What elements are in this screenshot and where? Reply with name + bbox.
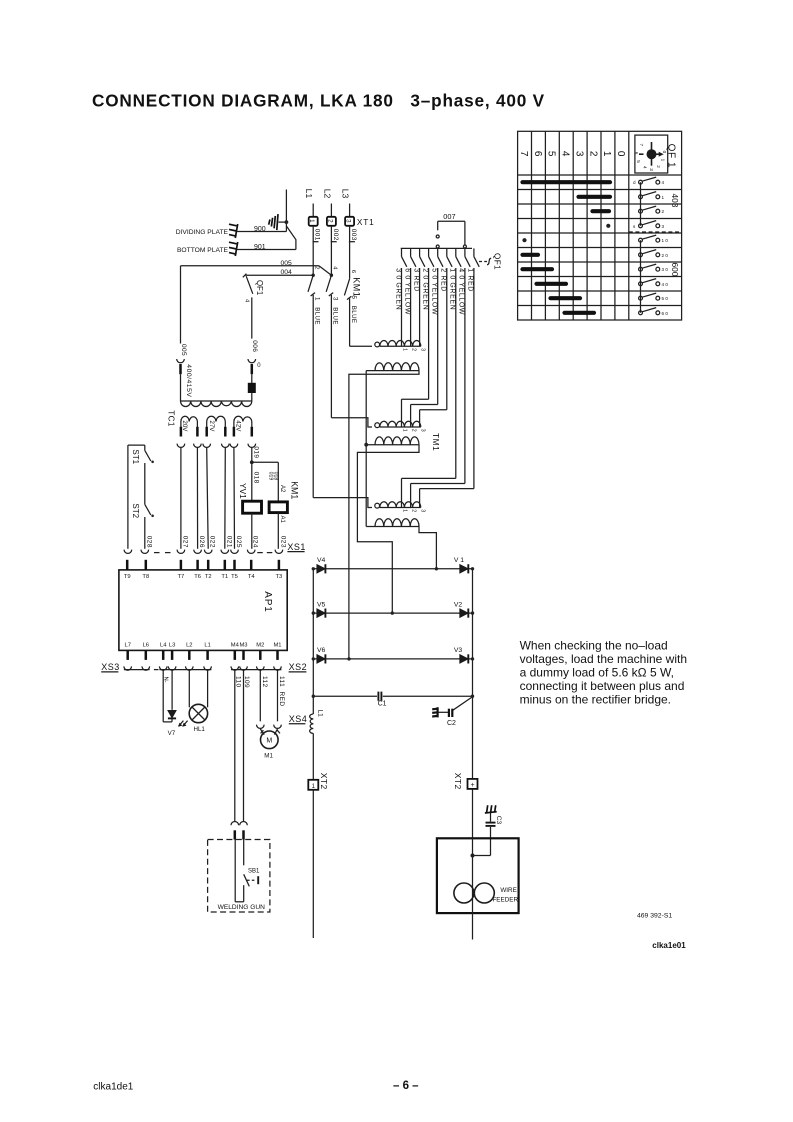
svg-text:L1: L1 — [204, 642, 210, 648]
svg-text:C3: C3 — [495, 816, 502, 825]
svg-text:When checking the no–load: When checking the no–load — [520, 638, 668, 652]
svg-text:XS3: XS3 — [101, 662, 120, 672]
svg-text:1 BLUE: 1 BLUE — [313, 297, 320, 325]
svg-text:006: 006 — [251, 340, 258, 352]
svg-text:3: 3 — [419, 509, 425, 512]
svg-text:42V: 42V — [235, 420, 242, 432]
svg-text:T8: T8 — [142, 574, 149, 580]
svg-text:1: 1 — [401, 429, 407, 432]
svg-text:L3: L3 — [169, 642, 175, 648]
svg-text:T9: T9 — [124, 574, 131, 580]
svg-text:A1: A1 — [279, 516, 285, 524]
svg-text:a dummy load of 5.6 kΩ 5 W,: a dummy load of 5.6 kΩ 5 W, — [520, 665, 674, 679]
svg-text:469 392-S1: 469 392-S1 — [637, 912, 672, 919]
svg-text:003: 003 — [350, 229, 357, 241]
svg-text:1: 1 — [662, 195, 665, 200]
svg-text:M1: M1 — [264, 752, 273, 759]
svg-text:3 0 GREEN: 3 0 GREEN — [394, 268, 401, 310]
svg-text:T6: T6 — [194, 574, 201, 580]
svg-text:V7: V7 — [168, 730, 176, 737]
svg-text:TC1: TC1 — [167, 410, 176, 427]
svg-text:N-: N- — [163, 677, 169, 683]
svg-text:M1: M1 — [273, 642, 281, 648]
svg-text:clka1de1: clka1de1 — [93, 1082, 133, 1093]
svg-text:2: 2 — [326, 219, 333, 223]
svg-text:M2: M2 — [256, 642, 264, 648]
svg-text:SB1: SB1 — [248, 869, 260, 875]
svg-text:clka1e01: clka1e01 — [652, 941, 686, 950]
svg-text:T2: T2 — [205, 574, 212, 580]
svg-text:YV1: YV1 — [238, 483, 248, 499]
svg-text:3 0: 3 0 — [662, 267, 669, 272]
svg-text:QF 1: QF 1 — [666, 144, 677, 169]
svg-text:C1: C1 — [378, 701, 387, 708]
svg-text:XS1: XS1 — [287, 542, 306, 552]
svg-text:L6: L6 — [143, 642, 149, 648]
svg-text:CONNECTION DIAGRAM, LKA 180: CONNECTION DIAGRAM, LKA 180 3–phase, 400… — [92, 91, 545, 111]
svg-text:L7: L7 — [124, 642, 130, 648]
svg-text:018: 018 — [272, 472, 278, 481]
svg-text:6: 6 — [350, 270, 356, 273]
svg-text:3 BLUE: 3 BLUE — [332, 297, 339, 325]
svg-text:TM1: TM1 — [431, 433, 441, 451]
svg-text:V5: V5 — [317, 601, 326, 608]
svg-text:019: 019 — [252, 446, 259, 458]
svg-text:DIVIDING PLATE: DIVIDING PLATE — [176, 229, 229, 236]
svg-text:C2: C2 — [447, 720, 456, 727]
svg-text:001: 001 — [314, 229, 321, 241]
svg-text:27V: 27V — [208, 420, 215, 432]
svg-text:T4: T4 — [248, 574, 256, 580]
svg-text:2 0 GREEN: 2 0 GREEN — [421, 268, 428, 310]
svg-text:HL1: HL1 — [194, 726, 206, 733]
svg-text:V6: V6 — [317, 647, 326, 654]
svg-text:3: 3 — [419, 429, 425, 432]
svg-text:4: 4 — [560, 151, 571, 157]
svg-text:V4: V4 — [317, 557, 326, 564]
svg-text:3: 3 — [662, 224, 665, 229]
svg-text:minus on the rectifier bridge.: minus on the rectifier bridge. — [520, 693, 671, 707]
svg-text:403: 403 — [670, 194, 680, 208]
svg-text:4 0 YELLOW: 4 0 YELLOW — [458, 268, 465, 315]
svg-text:2: 2 — [662, 209, 665, 214]
svg-text:XT2: XT2 — [319, 773, 329, 790]
svg-text:022: 022 — [209, 536, 216, 548]
svg-text:XS4: XS4 — [289, 714, 308, 724]
svg-text:2 RED: 2 RED — [440, 268, 447, 292]
svg-text:2: 2 — [313, 266, 319, 269]
svg-text:021: 021 — [225, 536, 232, 548]
svg-text:023: 023 — [279, 536, 286, 548]
svg-text:110: 110 — [234, 676, 241, 688]
svg-text:0: 0 — [615, 151, 626, 157]
svg-text:WELDING GUN: WELDING GUN — [218, 904, 265, 911]
svg-text:004: 004 — [281, 269, 293, 276]
svg-text:025: 025 — [235, 536, 242, 548]
svg-text:3: 3 — [419, 348, 425, 351]
svg-text:600: 600 — [670, 263, 680, 277]
svg-text:005: 005 — [281, 260, 293, 267]
svg-text:L2: L2 — [322, 189, 332, 199]
svg-text:+: + — [470, 782, 474, 789]
svg-text:d: d — [633, 180, 636, 185]
svg-text:L4: L4 — [160, 642, 167, 648]
svg-text:018: 018 — [252, 472, 259, 484]
svg-text:1 0: 1 0 — [662, 238, 669, 243]
svg-text:2: 2 — [587, 151, 598, 157]
svg-text:6: 6 — [532, 151, 543, 157]
svg-text:2: 2 — [656, 165, 661, 168]
svg-text:L1: L1 — [316, 710, 323, 718]
svg-text:028: 028 — [145, 536, 152, 548]
svg-text:– 6 –: – 6 – — [393, 1080, 419, 1092]
svg-text:109: 109 — [243, 676, 250, 688]
svg-text:024: 024 — [252, 536, 259, 548]
svg-text:XS2: XS2 — [289, 662, 308, 672]
svg-text:XT2: XT2 — [453, 773, 463, 790]
svg-text:1: 1 — [661, 159, 666, 162]
svg-text:M4: M4 — [231, 642, 240, 648]
svg-text:AP1: AP1 — [262, 591, 273, 612]
svg-text:2: 2 — [410, 429, 416, 432]
svg-text:2: 2 — [410, 348, 416, 351]
svg-text:T1: T1 — [221, 574, 228, 580]
svg-text:026: 026 — [198, 536, 205, 548]
svg-text:5 0 YELLOW: 5 0 YELLOW — [431, 268, 438, 315]
svg-text:T5: T5 — [231, 574, 238, 580]
svg-text:M: M — [266, 738, 272, 745]
svg-text:6 0 YELLOW: 6 0 YELLOW — [403, 268, 410, 315]
svg-text:KM1: KM1 — [289, 481, 299, 499]
svg-text:3: 3 — [649, 168, 654, 171]
svg-text:7: 7 — [639, 144, 644, 147]
svg-text:V2: V2 — [454, 601, 463, 608]
svg-text:4: 4 — [662, 180, 665, 185]
svg-text:ST1: ST1 — [131, 449, 140, 464]
svg-text:005: 005 — [180, 344, 187, 356]
svg-text:112: 112 — [261, 676, 268, 688]
svg-text:1: 1 — [601, 151, 612, 157]
svg-text:QF1: QF1 — [493, 253, 502, 270]
svg-text:4 0: 4 0 — [662, 282, 669, 287]
svg-text:5: 5 — [546, 151, 557, 157]
svg-text:M3: M3 — [239, 642, 247, 648]
svg-text:V3: V3 — [454, 647, 463, 654]
svg-text:3: 3 — [345, 219, 352, 223]
svg-text:voltages, load the machine wit: voltages, load the machine with — [520, 652, 687, 666]
svg-text:T7: T7 — [178, 574, 185, 580]
svg-text:111 RED: 111 RED — [278, 676, 285, 706]
svg-text:L1: L1 — [304, 189, 314, 199]
svg-text:2: 2 — [410, 509, 416, 512]
svg-text:2 0: 2 0 — [662, 253, 669, 258]
svg-text:1 0 GREEN: 1 0 GREEN — [449, 268, 456, 310]
svg-text:ST2: ST2 — [131, 503, 140, 518]
svg-text:connecting it between plus and: connecting it between plus and — [520, 679, 685, 693]
svg-text:6: 6 — [634, 152, 639, 155]
svg-text:5: 5 — [636, 160, 641, 163]
svg-text:XT1: XT1 — [357, 217, 375, 227]
svg-text:002: 002 — [332, 229, 339, 241]
svg-text:FEEDER: FEEDER — [492, 897, 518, 904]
svg-text:L2: L2 — [186, 642, 192, 648]
svg-text:5 0: 5 0 — [662, 296, 669, 301]
svg-text:1: 1 — [401, 348, 407, 351]
svg-text:400/415V: 400/415V — [185, 364, 192, 397]
svg-text:1: 1 — [401, 509, 407, 512]
svg-text:027: 027 — [181, 536, 188, 548]
svg-text:5 BLUE: 5 BLUE — [350, 296, 357, 324]
svg-text:KM1: KM1 — [352, 277, 362, 297]
svg-text:1: 1 — [308, 219, 315, 223]
svg-text:3: 3 — [574, 151, 585, 157]
svg-text:4: 4 — [643, 166, 648, 169]
svg-text:L3: L3 — [341, 189, 351, 199]
svg-text:BOTTOM PLATE: BOTTOM PLATE — [177, 247, 229, 254]
svg-text:007: 007 — [443, 212, 455, 221]
svg-text:WIRE: WIRE — [500, 887, 516, 894]
svg-text:V 1: V 1 — [454, 557, 464, 564]
svg-text:6 0: 6 0 — [662, 311, 669, 316]
svg-text:3 RED: 3 RED — [412, 268, 419, 292]
svg-text:1 RED: 1 RED — [467, 268, 474, 292]
svg-text:A2: A2 — [279, 485, 285, 493]
svg-text:QF1: QF1 — [255, 280, 264, 295]
svg-text:T3: T3 — [276, 574, 283, 580]
svg-text:7: 7 — [518, 151, 529, 157]
